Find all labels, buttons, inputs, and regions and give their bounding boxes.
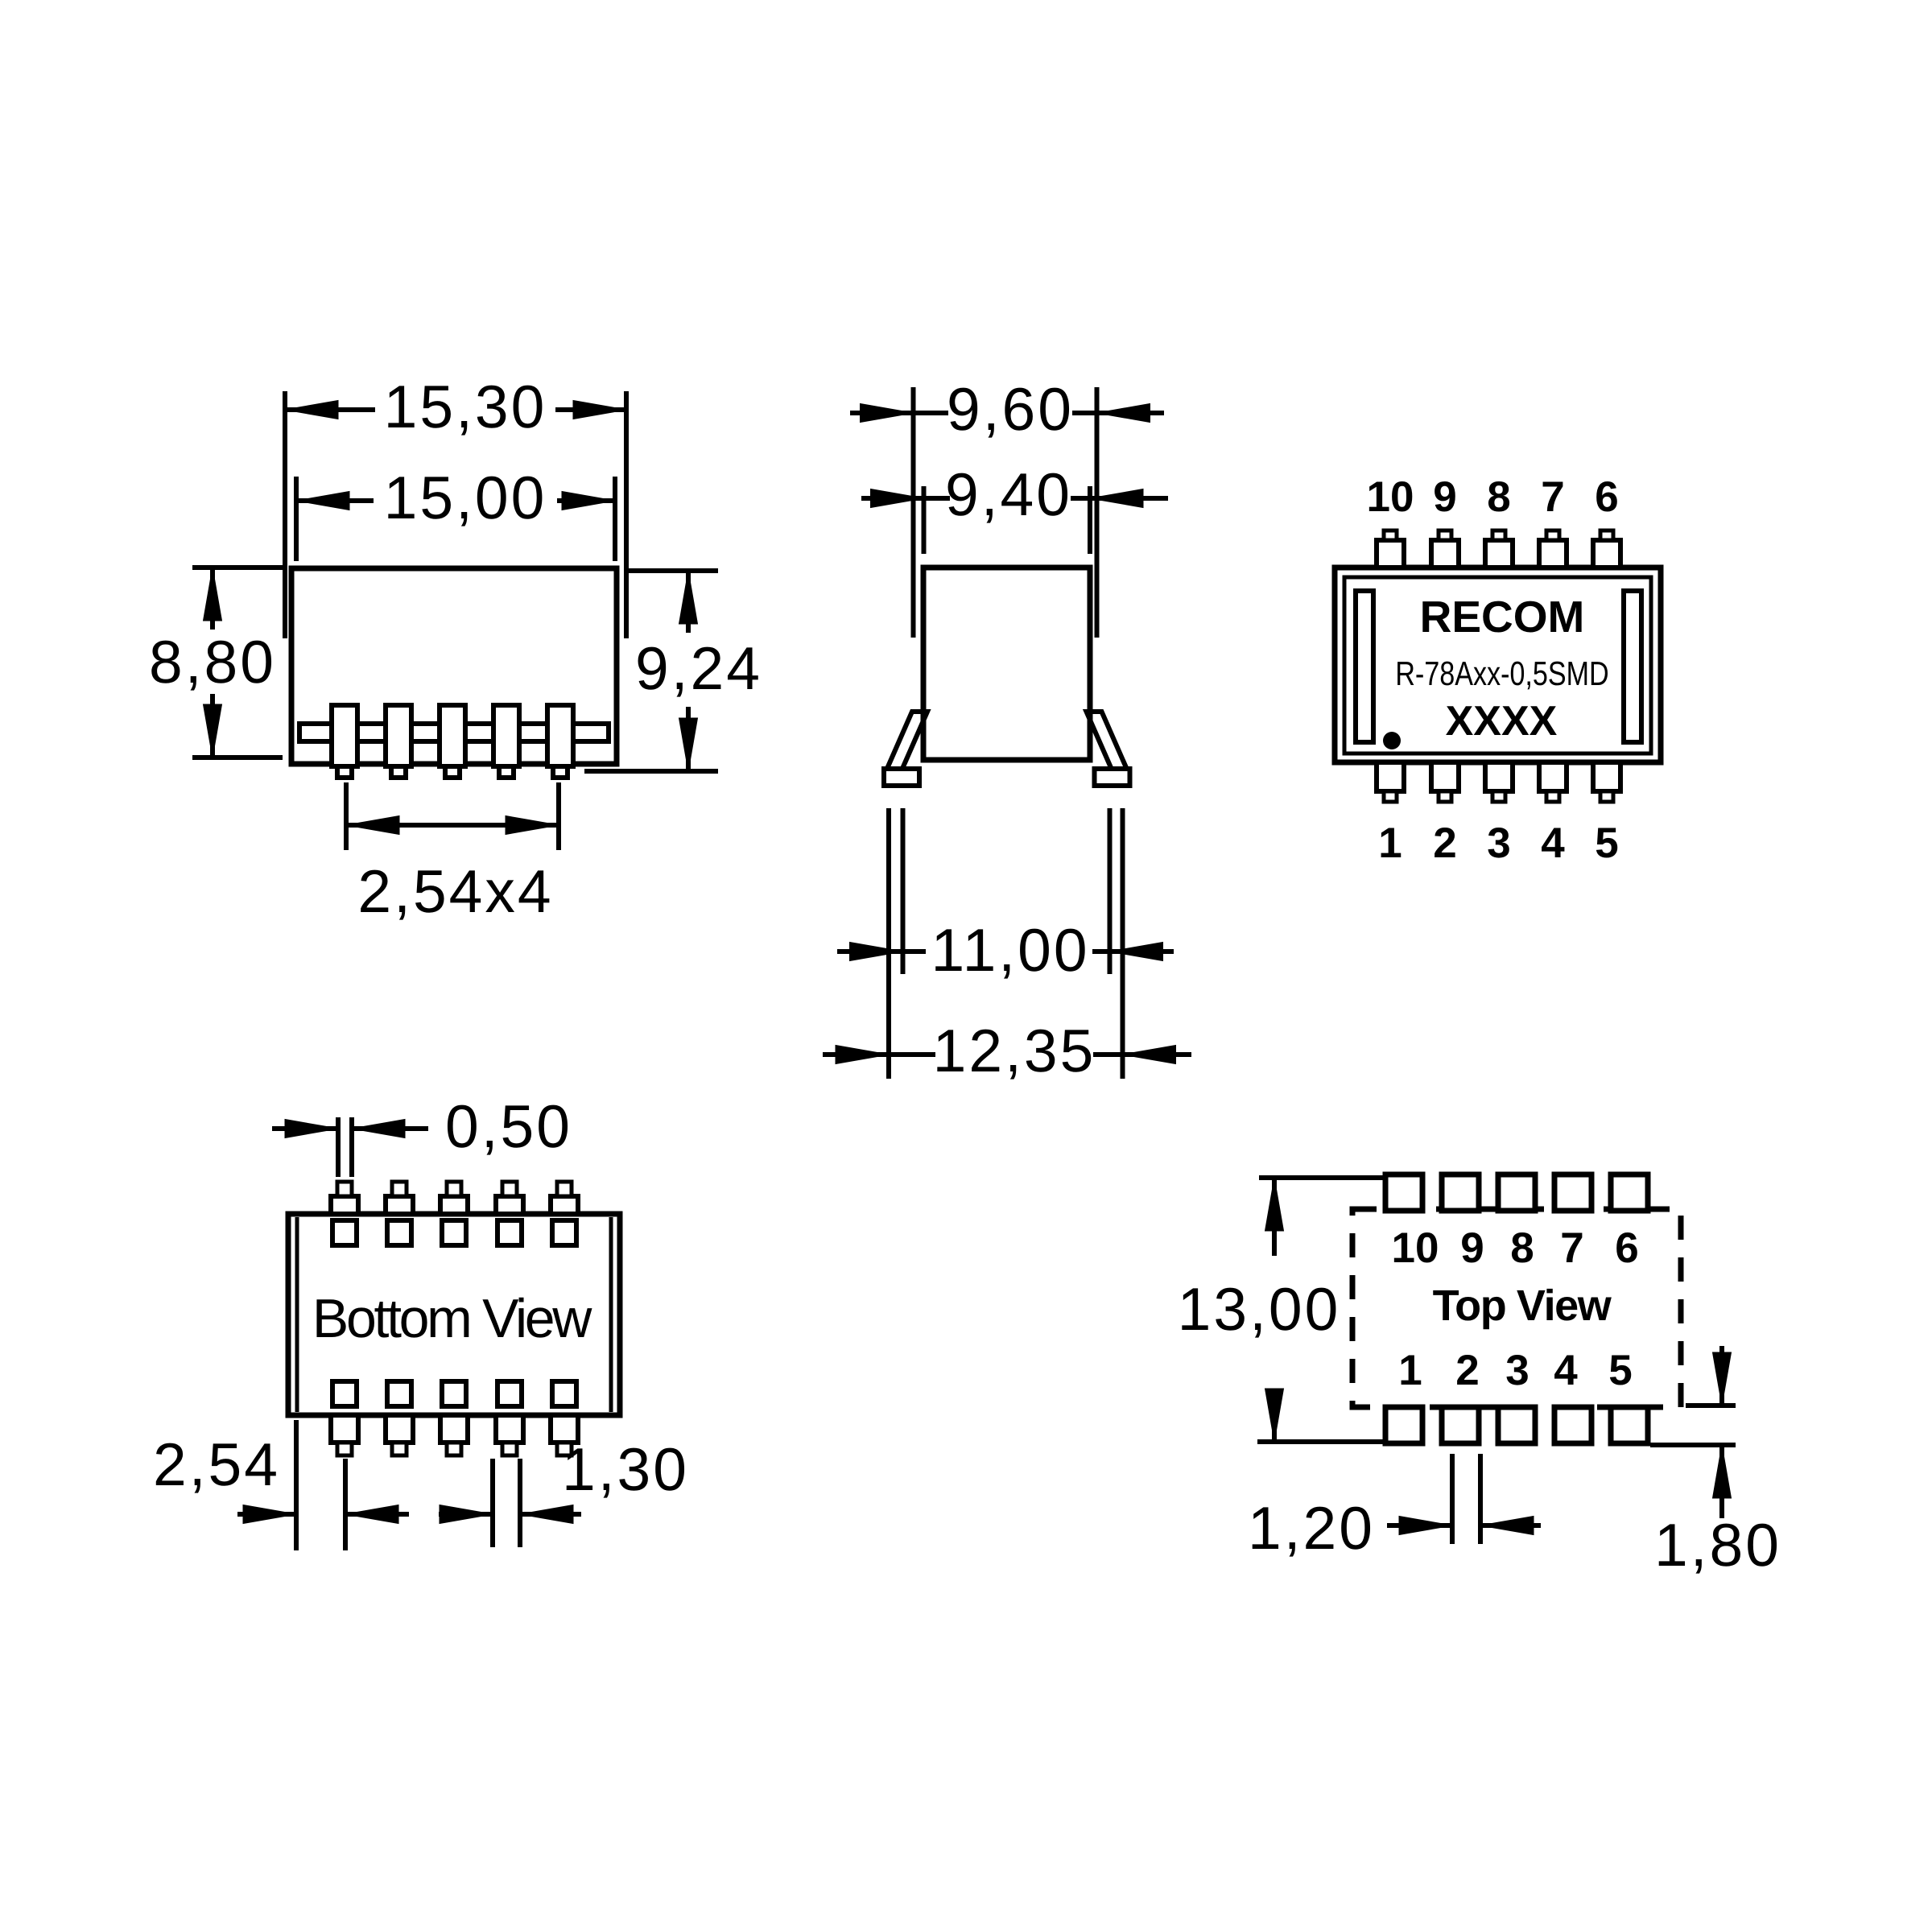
svg-text:9,24: 9,24 (635, 634, 762, 702)
svg-text:5: 5 (1595, 819, 1618, 867)
svg-text:5: 5 (1608, 1347, 1632, 1394)
svg-text:1,20: 1,20 (1248, 1494, 1375, 1562)
svg-text:13,00: 13,00 (1178, 1275, 1341, 1343)
svg-text:2,54: 2,54 (153, 1430, 280, 1498)
svg-text:10: 10 (1392, 1224, 1439, 1272)
svg-text:10: 10 (1367, 473, 1414, 521)
svg-text:2,54x4: 2,54x4 (357, 857, 553, 925)
svg-text:XXXX: XXXX (1446, 698, 1558, 745)
svg-text:6: 6 (1615, 1224, 1638, 1272)
svg-text:Top View: Top View (1433, 1282, 1612, 1330)
svg-text:1: 1 (1378, 819, 1402, 867)
svg-text:1,80: 1,80 (1654, 1511, 1781, 1579)
svg-text:6: 6 (1595, 473, 1618, 521)
svg-text:8,80: 8,80 (149, 628, 276, 696)
svg-text:3: 3 (1505, 1347, 1529, 1394)
svg-text:12,35: 12,35 (933, 1017, 1096, 1084)
svg-text:4: 4 (1541, 819, 1565, 867)
svg-text:1: 1 (1398, 1347, 1422, 1394)
svg-text:2: 2 (1455, 1347, 1479, 1394)
svg-text:RECOM: RECOM (1420, 592, 1585, 642)
svg-text:4: 4 (1554, 1347, 1578, 1394)
svg-text:7: 7 (1541, 473, 1564, 521)
svg-text:9,60: 9,60 (947, 375, 1074, 443)
svg-text:Bottom View: Bottom View (312, 1288, 592, 1349)
svg-text:3: 3 (1487, 819, 1510, 867)
svg-text:9,40: 9,40 (945, 460, 1072, 528)
svg-text:15,00: 15,00 (384, 464, 547, 531)
svg-text:0,50: 0,50 (445, 1092, 572, 1160)
svg-text:15,30: 15,30 (384, 373, 547, 440)
svg-text:2: 2 (1433, 819, 1456, 867)
svg-text:9: 9 (1460, 1224, 1484, 1272)
svg-text:1,30: 1,30 (562, 1435, 689, 1503)
svg-text:8: 8 (1487, 473, 1510, 521)
svg-text:11,00: 11,00 (931, 916, 1089, 984)
svg-text:7: 7 (1560, 1224, 1583, 1272)
svg-text:9: 9 (1433, 473, 1456, 521)
svg-text:8: 8 (1510, 1224, 1534, 1272)
